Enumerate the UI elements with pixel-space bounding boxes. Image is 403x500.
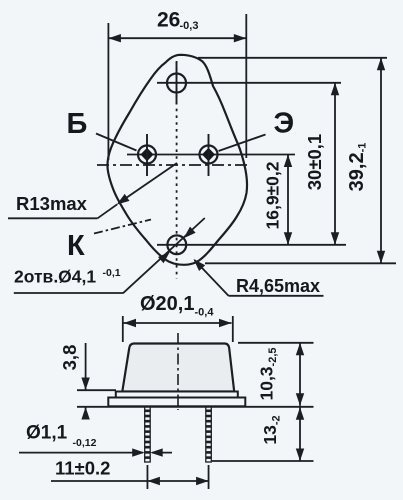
dim line 20,1 (124, 322, 232, 324)
svg-text:Ø20,1: Ø20,1 (140, 293, 194, 315)
R13max underline (8, 217, 98, 219)
svg-text:Ø1,1: Ø1,1 (26, 423, 68, 444)
left extension line (107, 23, 109, 160)
svg-text:-0,12: -0,12 (73, 437, 97, 449)
mounting hole (bottom) (167, 235, 186, 254)
svg-text:26: 26 (157, 9, 180, 32)
ext right lead (208, 465, 210, 489)
extension line through pins (127, 154, 295, 156)
R4,65max leader (195, 260, 229, 296)
pin Б (base) (138, 146, 156, 164)
ext line (77, 389, 116, 391)
svg-text:-0,4: -0,4 (195, 307, 215, 319)
pin Э (emitter) (200, 146, 218, 164)
dimension line 26 (108, 37, 246, 39)
side view cap (122, 344, 234, 392)
dimension 30±0,1 (334, 83, 336, 245)
R13 radius line with arrow (119, 163, 178, 203)
ext line right (232, 316, 234, 342)
svg-text:Э: Э (274, 108, 295, 140)
dim line 11 (51, 480, 209, 482)
transistor body outline (bottom view) (107, 55, 247, 265)
top hole vertical crosshair (176, 62, 178, 105)
2отв underline (14, 292, 124, 294)
dimension 39,2-1 (380, 58, 382, 263)
side view skirt (116, 392, 238, 398)
leader Б (96, 134, 137, 151)
svg-text:2отв.Ø4,1: 2отв.Ø4,1 (14, 267, 96, 287)
svg-text:R4,65max: R4,65max (236, 276, 320, 296)
svg-text:30±0,1: 30±0,1 (304, 134, 325, 190)
ext cap top (238, 342, 314, 344)
vertical centerline (dotted) (176, 61, 178, 279)
dimension 16,9±0,2 (287, 155, 289, 245)
svg-text:R13max: R13max (16, 193, 88, 214)
svg-text:-0,1: -0,1 (103, 267, 121, 279)
R4,65max underline (229, 295, 324, 297)
svg-text:16,9±0,2: 16,9±0,2 (263, 161, 283, 229)
left lead (145, 406, 151, 462)
ext line left (122, 316, 124, 342)
extension line through top hole (157, 82, 341, 84)
svg-text:К: К (67, 230, 85, 262)
horizontal centerline (dash-dot) (97, 164, 250, 166)
svg-text:Б: Б (67, 108, 88, 140)
side view flange (108, 398, 245, 407)
svg-text:11±0.2: 11±0.2 (55, 458, 110, 479)
ext lead end (212, 460, 314, 462)
R13max leader diagonal (98, 204, 118, 218)
flange bottom line / extension (77, 406, 314, 408)
leader К (dash-dot) (94, 220, 151, 234)
extension line through bottom hole (157, 244, 346, 246)
ext left lead (146, 465, 148, 489)
right lead (206, 406, 212, 462)
mounting hole (top) (167, 74, 186, 93)
extension line package top (198, 57, 387, 59)
side view centerline (177, 333, 179, 410)
right extension line (245, 14, 247, 158)
svg-text:-0,3: -0,3 (180, 20, 199, 32)
extension line package bottom (205, 262, 396, 264)
svg-text:3,8: 3,8 (59, 345, 80, 371)
leader Э (219, 135, 266, 152)
hole diameter dimension line (123, 218, 205, 293)
